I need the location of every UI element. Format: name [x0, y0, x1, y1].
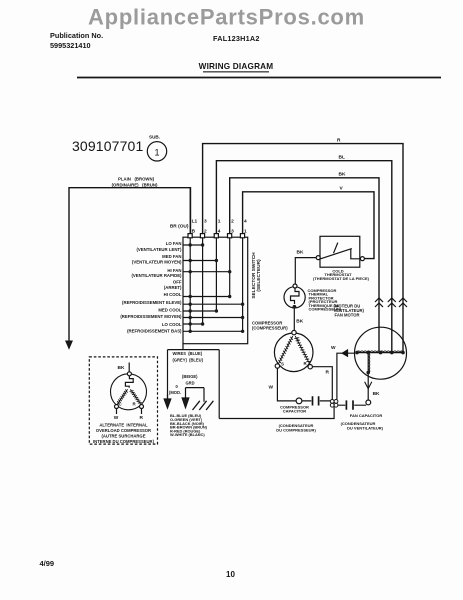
selector row 7: [183, 317, 243, 319]
wire V top loop to thermostat: [243, 192, 374, 259]
svg-text:BK: BK: [296, 319, 303, 325]
selector column c5 internal: [242, 238, 244, 331]
svg-text:(THERMOSTAT DE LA PIECE): (THERMOSTAT DE LA PIECE): [313, 276, 370, 281]
svg-text:LO FAN: LO FAN: [166, 241, 182, 246]
svg-text:W: W: [269, 385, 274, 391]
svg-text:C: C: [119, 402, 123, 407]
wire BK thermostat to protector: [295, 258, 316, 285]
svg-text:INTERNE DU COMPRESSEUR): INTERNE DU COMPRESSEUR): [93, 439, 155, 444]
wire R compressor to junction: [312, 367, 332, 400]
bottom return wire: [219, 407, 334, 419]
selector row LO COOL: [183, 323, 203, 325]
fan capacitor terminal: [366, 400, 371, 405]
svg-text:(VENTILATEUR MOYEN): (VENTILATEUR MOYEN): [132, 260, 182, 265]
svg-text:L1: L1: [192, 219, 198, 225]
svg-text:Publication No.: Publication No.: [50, 31, 103, 40]
svg-text:BK: BK: [297, 250, 304, 256]
ground symbol: [193, 401, 214, 410]
wire BK top loop: [230, 178, 379, 353]
svg-text:MED COOL: MED COOL: [158, 308, 182, 313]
svg-text:SELECTOR SWITCH: SELECTOR SWITCH: [251, 252, 257, 299]
svg-text:W-WHITE (BLANC): W-WHITE (BLANC): [170, 432, 205, 437]
fan motor main winding: [356, 352, 405, 354]
wires labels: [169, 351, 204, 395]
wires arrow: [164, 394, 171, 408]
GRD bracket: [186, 388, 205, 402]
svg-text:R: R: [326, 370, 330, 376]
svg-text:B: B: [192, 228, 196, 234]
svg-text:LO COOL: LO COOL: [162, 322, 182, 327]
svg-text:(BEIGE): (BEIGE): [182, 374, 198, 379]
svg-text:(REFROIDISSEMENT ELEVE): (REFROIDISSEMENT ELEVE): [122, 300, 182, 305]
svg-text:309107701: 309107701: [72, 138, 143, 154]
svg-text:V: V: [340, 186, 344, 192]
wire BK protector to compressor: [293, 309, 295, 331]
svg-text:BR (OU): BR (OU): [170, 224, 189, 230]
power cord arrow: [66, 341, 72, 349]
thermostat left terminal: [316, 256, 320, 260]
svg-text:AppliancePartsPros.com: AppliancePartsPros.com: [88, 5, 365, 30]
compressor terminal S: [275, 364, 279, 368]
svg-text:WIRING DIAGRAM: WIRING DIAGRAM: [199, 62, 274, 71]
alternate compressor labels: [93, 423, 155, 444]
selector row HI COOL: [183, 296, 231, 298]
svg-text:0: 0: [176, 384, 179, 389]
svg-text:FAN MOTOR: FAN MOTOR: [335, 313, 360, 318]
compressor terminal R: [308, 365, 312, 369]
compressor motor: [274, 333, 313, 372]
selector row 9: [183, 330, 243, 332]
chevron arrows on R riser: [399, 298, 407, 307]
svg-text:(VENTILATEUR LENT): (VENTILATEUR LENT): [136, 247, 182, 252]
alternate compressor dashed box: [89, 357, 157, 444]
chevron arrows on BL riser: [388, 298, 396, 307]
fan capacitor labels: [341, 413, 384, 431]
selector switch box SW1: [183, 237, 248, 344]
svg-text:1: 1: [244, 228, 247, 234]
svg-text:(ARRET): (ARRET): [164, 285, 182, 290]
svg-text:4/99: 4/99: [40, 559, 55, 568]
thermostat box: [320, 236, 360, 267]
fan motor start winding vertical: [367, 353, 369, 373]
compressor winding C-R: [294, 336, 310, 364]
wires bracket from selector switch: [168, 344, 220, 419]
svg-text:1: 1: [218, 219, 221, 225]
svg-text:MED FAN: MED FAN: [162, 254, 181, 259]
fan motor labels: [334, 304, 365, 318]
GRD arrow: [182, 398, 189, 408]
svg-text:2: 2: [231, 219, 234, 225]
selector row MED FAN: [183, 260, 216, 262]
svg-text:SUB.: SUB.: [149, 135, 160, 140]
compressor capacitor labels: [276, 404, 316, 432]
svg-text:(AUTRE SURCHARGE: (AUTRE SURCHARGE: [102, 433, 146, 438]
alternate compressor bottom terminals: [115, 405, 119, 409]
junction dots selector switch: [189, 243, 245, 333]
svg-text:1: 1: [154, 148, 159, 158]
fan motor: [355, 327, 407, 379]
wire W fan motor to junction: [337, 353, 343, 399]
wire L1 column c1: [189, 188, 191, 234]
thermostat right terminal: [360, 257, 364, 261]
wire BL top loop: [216, 161, 391, 353]
svg-text:BL: BL: [339, 155, 345, 161]
svg-text:HI COOL: HI COOL: [164, 292, 182, 297]
svg-text:FAL123H1A2: FAL123H1A2: [213, 34, 260, 43]
svg-text:OVERLOAD COMPRESSOR: OVERLOAD COMPRESSOR: [96, 428, 151, 433]
svg-text:(REFROIDISSEMENT MOYEN): (REFROIDISSEMENT MOYEN): [120, 314, 182, 319]
svg-text:3: 3: [231, 228, 234, 234]
svg-text:FAN CAPACITOR: FAN CAPACITOR: [350, 413, 383, 418]
svg-text:GRD: GRD: [186, 381, 195, 386]
svg-text:2: 2: [204, 228, 207, 234]
wire BK fan motor to fan capacitor: [367, 373, 369, 401]
svg-text:(REFROIDISSEMENT BAS): (REFROIDISSEMENT BAS): [127, 329, 182, 334]
thermostat labels: [313, 268, 370, 281]
capacitor common junction (4 rings): [330, 400, 338, 408]
wire W compressor S to capacitor: [277, 368, 295, 401]
compressor winding C-S: [278, 336, 292, 364]
header rule: [77, 77, 441, 79]
svg-text:WIRES (BLUE): WIRES (BLUE): [173, 351, 203, 356]
svg-text:DU COMPRESSEUR): DU COMPRESSEUR): [276, 427, 316, 432]
alternate compressor winding left: [117, 389, 128, 404]
svg-text:10: 10: [226, 570, 235, 579]
svg-text:(VENTILATEUR RAPIDE): (VENTILATEUR RAPIDE): [131, 273, 182, 278]
svg-text:W: W: [114, 415, 119, 421]
svg-text:S: S: [281, 362, 284, 367]
svg-text:R: R: [337, 138, 341, 144]
power cord labels: [112, 177, 158, 188]
alternate compressor overload zigzag: [125, 376, 133, 388]
fan motor winding junction dots: [355, 351, 405, 375]
terminal squares on selector switch: [188, 234, 245, 238]
svg-text:(ORDINAIRE) (BRUN): (ORDINAIRE) (BRUN): [112, 182, 158, 187]
svg-text:BK: BK: [339, 172, 346, 178]
arrow W into fan motor: [342, 350, 355, 356]
alternate compressor top lead: [128, 363, 130, 372]
chevron arrows on BK riser: [375, 298, 383, 307]
selector row LO FAN: [183, 244, 203, 246]
compressor labels: [252, 321, 288, 331]
thermal protector labels: [308, 288, 342, 312]
alternate compressor winding right: [130, 389, 142, 404]
compressor terminal C: [292, 330, 296, 334]
compressor capacitor C1: [302, 400, 330, 402]
selector column c4 internal: [229, 238, 231, 297]
svg-text:W: W: [331, 345, 336, 351]
svg-text:C: C: [297, 336, 301, 341]
svg-text:3: 3: [204, 219, 207, 225]
selector row 5: [183, 303, 243, 305]
title underline: [203, 71, 269, 72]
svg-text:R: R: [133, 402, 137, 407]
wire color legend: [170, 413, 208, 437]
selector column c2 internal: [202, 238, 204, 324]
labels: top loop wire colors: [114, 138, 380, 422]
svg-text:DU VENTILATEUR): DU VENTILATEUR): [347, 426, 384, 431]
selector row MED COOL: [183, 310, 216, 312]
compressor capacitor terminal: [296, 398, 302, 404]
selector switch row labels: [120, 241, 182, 334]
svg-text:R: R: [140, 415, 144, 421]
alternate compressor motor: [111, 374, 147, 410]
svg-text:OFF: OFF: [173, 279, 182, 284]
arrow BK down: [365, 382, 372, 389]
svg-text:4: 4: [218, 228, 221, 234]
svg-text:(SELECTEUR): (SELECTEUR): [256, 259, 262, 292]
power cord box (top left): [69, 188, 191, 341]
svg-text:ALTERNATE INTERNAL: ALTERNATE INTERNAL: [99, 423, 148, 428]
SUB revision circle: [147, 135, 166, 162]
wire R top loop: [203, 144, 403, 353]
selector column c3 internal: [215, 238, 217, 311]
svg-text:4: 4: [244, 219, 247, 225]
fan capacitor C2: [338, 404, 366, 406]
compressor thermal protector: [284, 287, 305, 308]
thermostat switch blade: [321, 243, 360, 259]
svg-text:(COMPRESSEUR): (COMPRESSEUR): [252, 326, 288, 331]
svg-text:BK: BK: [118, 365, 125, 371]
selector column c1 internal: [189, 238, 191, 331]
svg-text:CAPACITOR: CAPACITOR: [283, 408, 307, 413]
selector row HI FAN: [183, 271, 231, 273]
selector terminal numbers: [192, 219, 247, 235]
svg-text:BK: BK: [373, 391, 380, 397]
svg-text:PLAIN (BROWN): PLAIN (BROWN): [118, 177, 155, 182]
svg-text:HI FAN: HI FAN: [167, 268, 181, 273]
svg-text:(MOD.: (MOD.: [169, 390, 181, 395]
svg-text:5995321410: 5995321410: [50, 41, 91, 50]
svg-text:(GREY) (BLEU): (GREY) (BLEU): [173, 358, 204, 363]
